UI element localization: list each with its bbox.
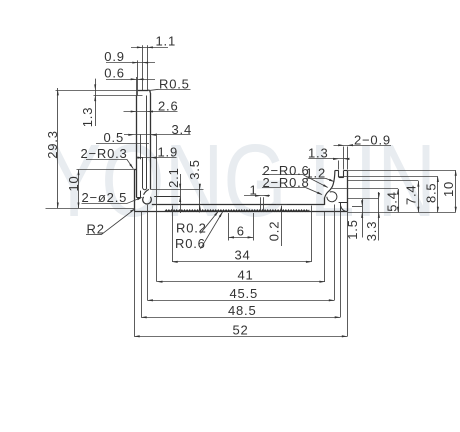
dim 0.2 tick [276, 204, 287, 206]
profile: foot left edge [134, 170, 136, 212]
arrow 1.3r R [344, 158, 350, 160]
profile: channel wall left [142, 157, 144, 188]
hole 2-ø2.5 right circle [327, 192, 337, 202]
svg-text:2−0.9: 2−0.9 [354, 133, 391, 148]
arrow 48.5 R [335, 316, 341, 318]
arrow 5.4 bottom [397, 207, 399, 213]
dim 1.1 line [131, 47, 168, 49]
dim 3.5 line [199, 185, 201, 213]
dim 10 right top ext [348, 170, 456, 172]
arrow 2-R0.6 [323, 184, 328, 188]
svg-text:R0.5: R0.5 [159, 77, 190, 92]
dim 1.9 line [137, 157, 177, 159]
arrow 10 bottom [78, 203, 80, 209]
dim 8.5 line [437, 176, 439, 212]
dim 0.9 ext [137, 60, 139, 95]
svg-text:1.5: 1.5 [345, 219, 360, 239]
profile: foot inner step [136, 197, 140, 199]
arrow 2-0.9 a [338, 144, 344, 146]
arrow 41 R [319, 281, 325, 283]
dim 34 line [172, 261, 311, 263]
arrow 29.3 top [57, 90, 59, 96]
svg-text:3.5: 3.5 [187, 159, 202, 179]
dim 29.3 bottom ext [46, 208, 135, 210]
arrow 0.2 [280, 206, 282, 212]
profile: right pocket fillet [341, 206, 346, 212]
arrow 1.5 top [361, 200, 363, 206]
dim 6 ext right [253, 213, 255, 241]
dim 1.5 line [362, 199, 364, 238]
svg-text:10: 10 [441, 181, 456, 197]
arrow 48.5 L [141, 316, 147, 318]
profile: flange bottom edge [134, 211, 347, 213]
dim 2.1 line [180, 174, 182, 213]
profile: right boss outer curve [325, 170, 335, 197]
arrow 3.5 bottom [199, 205, 201, 211]
dim 1 line [244, 195, 270, 197]
top face ext line [56, 90, 138, 92]
arrow 1.3 top [94, 84, 96, 90]
arrow R0.6 [219, 212, 223, 217]
arrow 52 R [342, 335, 348, 337]
svg-text:8.5: 8.5 [424, 183, 439, 203]
arrow 1.1 L [137, 46, 143, 48]
profile: wall left edge [136, 96, 138, 198]
slot ext b [338, 161, 340, 170]
arrow 1.3 bottom [94, 96, 96, 102]
arrow 10r top [455, 170, 457, 176]
arrow 3.3 top [378, 193, 380, 199]
dim 45.5 ext right [334, 205, 336, 301]
arrow 3.5 top [199, 184, 201, 190]
dim 0.5 underline [96, 143, 149, 145]
svg-text:R0.6: R0.6 [175, 236, 206, 251]
arrow 34 R [306, 261, 312, 263]
arrow 6 L [228, 236, 234, 238]
dim 3.4 / 0.5 line [124, 134, 191, 136]
svg-text:3.3: 3.3 [364, 221, 379, 241]
profile: wall right edge [150, 93, 152, 189]
R0.5 underline [159, 89, 191, 91]
R0.5 leader [149, 89, 159, 90]
profile: channel wall inner [146, 96, 148, 158]
dim 41 line [157, 281, 325, 283]
R2 underline [86, 234, 101, 236]
svg-text:R0.2: R0.2 [176, 220, 207, 235]
arrow 10r bottom [455, 207, 457, 213]
profile: serrated bottom (knurl) [165, 210, 309, 212]
profile: channel ledge [140, 134, 142, 159]
dim 52 ext left [134, 211, 136, 336]
dim 52 line [134, 336, 347, 338]
dim 0.6 line [106, 79, 155, 81]
arrow 1 R [264, 195, 270, 197]
arrow 34 L [172, 261, 178, 263]
arrow 0.9 L [132, 62, 138, 64]
dim 7.4 line [418, 181, 420, 212]
dim 5.4 ext [332, 188, 398, 190]
arrow 2.1 bottom [179, 196, 181, 202]
arrow 7.4 top [417, 181, 419, 187]
dim 8.5 ext [339, 176, 438, 178]
svg-text:2−ø2.5: 2−ø2.5 [82, 190, 128, 205]
arrow 3.3 bottom [378, 212, 380, 218]
profile: foot inner edge [140, 191, 142, 198]
svg-text:10: 10 [66, 175, 81, 191]
svg-text:0.9: 0.9 [104, 49, 124, 64]
arrow 1.5 bottom [361, 212, 363, 218]
arrow R2 [130, 209, 135, 213]
svg-text:6: 6 [237, 224, 245, 239]
svg-text:48.5: 48.5 [228, 303, 257, 318]
profile: left wall tongue top face [138, 90, 148, 92]
arrow 8.5 bottom [437, 207, 439, 213]
profile: foot lip top [134, 169, 136, 171]
dim 1.3 line [95, 79, 97, 126]
2-R0.6 leader [304, 175, 328, 187]
arrow 7.4 bottom [417, 207, 419, 213]
arrow R0.2 [214, 211, 218, 216]
profile: right edge [347, 170, 349, 211]
dim 48.5 ext right [340, 212, 342, 318]
dim 0.6 ext [136, 77, 138, 96]
dim 45.5 line [147, 300, 334, 302]
arrow 41 L [157, 281, 163, 283]
profile: R0.5 fillet top right [148, 90, 150, 93]
dim 3.3 top ext [348, 198, 379, 200]
profile: hook funnel curve [144, 189, 149, 194]
arrow 8.5 top [437, 176, 439, 182]
arrow 1 L [255, 195, 261, 197]
svg-text:2.1: 2.1 [166, 167, 181, 187]
svg-text:1.2: 1.2 [306, 166, 326, 181]
dim 0.9 line [106, 62, 155, 64]
svg-text:1: 1 [250, 182, 258, 197]
dim 1.1 ext left [142, 45, 144, 90]
dim 45.5 ext left [147, 205, 149, 300]
arrow 2-ø2.5 [137, 197, 143, 200]
svg-text:0.6: 0.6 [104, 66, 124, 81]
2-R0.6 underline [262, 174, 304, 176]
R0.6 leader [201, 212, 223, 249]
svg-text:52: 52 [233, 322, 249, 337]
dim 48.5 ext left [141, 212, 143, 318]
slot ext c [343, 147, 345, 170]
dim 1.3 right line [308, 158, 347, 160]
R0.2 leader [201, 211, 219, 233]
arrow 1.9 L [137, 157, 143, 159]
dim 10 top ext [77, 169, 135, 171]
profile: channel bottom [143, 188, 147, 190]
profile: flange top edge [152, 204, 325, 206]
arrow 2-R0.3 [129, 164, 133, 169]
dim 1.5 ext [352, 206, 362, 208]
svg-text:0.5: 0.5 [104, 130, 124, 145]
arrow 6 R [248, 236, 254, 238]
arrow 2.6 R [147, 111, 153, 113]
2-R0.8 leader [306, 188, 322, 195]
2-ø2.5 underline [82, 203, 128, 205]
profile: right boss step [324, 198, 326, 205]
arrow 1.1 R [147, 46, 153, 48]
svg-text:45.5: 45.5 [230, 286, 259, 301]
svg-text:29.3: 29.3 [45, 130, 60, 159]
dim 1 ext right [263, 197, 265, 210]
arrow 29.3 bottom [57, 203, 59, 209]
arrow 45.5 R [329, 299, 335, 301]
dim 41 ext right [324, 212, 326, 282]
arrow 1.9 R [151, 157, 157, 159]
shoulder ext line [94, 95, 143, 97]
arrow 2-0.9 b [347, 144, 353, 146]
svg-text:1.3: 1.3 [80, 107, 95, 127]
dim 6 ext left [228, 213, 230, 241]
arrow 45.5 L [147, 299, 153, 301]
arrow 1.2 [329, 179, 335, 182]
2-R0.3 leader [127, 159, 134, 169]
2-ø2.5 leader [127, 198, 142, 204]
dim 2-0.9 line [334, 145, 392, 147]
dim 1 ext left [260, 197, 262, 210]
dim 29.3 line [57, 88, 59, 208]
2-R0.8 underline [262, 187, 306, 189]
profile: right pocket top [339, 202, 348, 204]
dim 41 ext left [156, 134, 158, 282]
dim 5.4 line [398, 189, 400, 212]
svg-text:0.2: 0.2 [267, 221, 282, 241]
arrow 1.3r L [333, 158, 339, 160]
dim 34 ext left [172, 206, 174, 262]
arrow 2-R0.8 [317, 192, 323, 195]
dim 10 line [78, 170, 80, 209]
arrow 2.1 top [179, 184, 181, 190]
dim 34 ext right [311, 206, 313, 262]
slot ext d [347, 147, 349, 170]
svg-text:2−R0.3: 2−R0.3 [81, 146, 128, 161]
arrow 10 top [78, 170, 80, 176]
arrow 0.6 R [138, 78, 144, 80]
profile: right boss top comb [335, 170, 339, 172]
svg-text:1.1: 1.1 [156, 34, 176, 49]
arrow 2.6 L [131, 111, 137, 113]
arrow 3.4 R [150, 134, 156, 136]
right bottom ext [348, 212, 456, 214]
svg-text:R2: R2 [87, 221, 105, 236]
profile: hook tab bottom [154, 196, 180, 198]
hole 2-ø2.5 left circle [143, 197, 152, 204]
profile: right pocket wall [340, 203, 342, 212]
2-R0.3 underline [86, 159, 127, 161]
svg-text:5.4: 5.4 [385, 191, 400, 211]
arrow 52 L [134, 335, 140, 337]
dim 0.2 line [281, 206, 283, 246]
svg-text:2−R0.8: 2−R0.8 [263, 175, 310, 190]
svg-text:34: 34 [235, 248, 251, 263]
dim 2.6 line [124, 111, 178, 113]
dim 6 line [228, 237, 253, 239]
dim 52 ext right [347, 212, 349, 337]
svg-text:7.4: 7.4 [404, 185, 419, 205]
dim 48.5 line [141, 317, 340, 319]
dim 1.2 leader [326, 178, 334, 181]
ledge ext line [151, 189, 204, 191]
dim 7.4 ext [348, 180, 418, 182]
arrow 5.4 top [397, 189, 399, 195]
svg-text:3.4: 3.4 [172, 122, 192, 137]
svg-text:1.9: 1.9 [158, 145, 178, 160]
dim 1.2 underline [306, 178, 326, 180]
profile: channel wall right [146, 157, 148, 188]
R2 leader [101, 209, 135, 235]
dim 1.1 ext right [147, 45, 149, 90]
dim 3.3 line [378, 192, 380, 241]
arrow 0.5/3.4 L [128, 134, 134, 136]
svg-text:2.6: 2.6 [158, 99, 178, 114]
svg-text:1.3: 1.3 [308, 145, 328, 160]
svg-text:41: 41 [238, 268, 254, 283]
arrow 0.9 R [143, 62, 149, 64]
dim 10 right line [455, 170, 457, 212]
arrow 0.6 L [131, 78, 137, 80]
